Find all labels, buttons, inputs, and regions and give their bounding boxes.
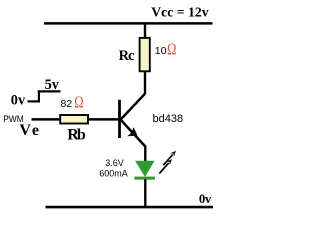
svg-text:82: 82 xyxy=(61,98,73,110)
svg-text:Ω: Ω xyxy=(74,93,83,112)
wire emitter vertical xyxy=(144,146,146,162)
wire emitter diagonal xyxy=(120,119,145,147)
svg-text:10: 10 xyxy=(155,45,167,57)
wire collector diagonal xyxy=(120,94,145,120)
LED light arrow lower xyxy=(159,159,172,174)
wire base lead xyxy=(89,118,120,121)
svg-text:Ω: Ω xyxy=(167,40,176,59)
svg-text:3.6V: 3.6V xyxy=(105,158,124,168)
wire 0v bottom rail xyxy=(46,206,214,209)
svg-text:Rc: Rc xyxy=(119,48,135,64)
resistor Rc xyxy=(140,38,150,71)
svg-text:Rb: Rb xyxy=(67,127,86,144)
wire Rc top lead xyxy=(144,23,146,38)
waveform step edge xyxy=(38,90,40,102)
LED D1 cathode bar xyxy=(134,177,155,180)
LED D1 anode triangle xyxy=(135,161,155,177)
svg-text:600mA: 600mA xyxy=(99,169,128,179)
waveform high line xyxy=(38,90,61,92)
wire Rc bottom lead xyxy=(144,72,146,94)
LED light arrow upper xyxy=(163,151,176,166)
wire Vcc top rail xyxy=(44,22,213,25)
waveform low line xyxy=(28,100,41,102)
svg-text:bd438: bd438 xyxy=(153,113,184,125)
resistor Rb xyxy=(60,115,88,124)
wire PWM input xyxy=(32,118,61,121)
svg-text:0v: 0v xyxy=(11,93,26,109)
transistor Q1 base bar xyxy=(118,100,121,138)
svg-text:0v: 0v xyxy=(199,192,212,206)
transistor emitter arrowhead xyxy=(127,127,137,136)
svg-text:Vcc = 12v: Vcc = 12v xyxy=(151,4,208,19)
wire LED to ground xyxy=(144,179,146,206)
svg-text:Ve: Ve xyxy=(19,122,39,139)
